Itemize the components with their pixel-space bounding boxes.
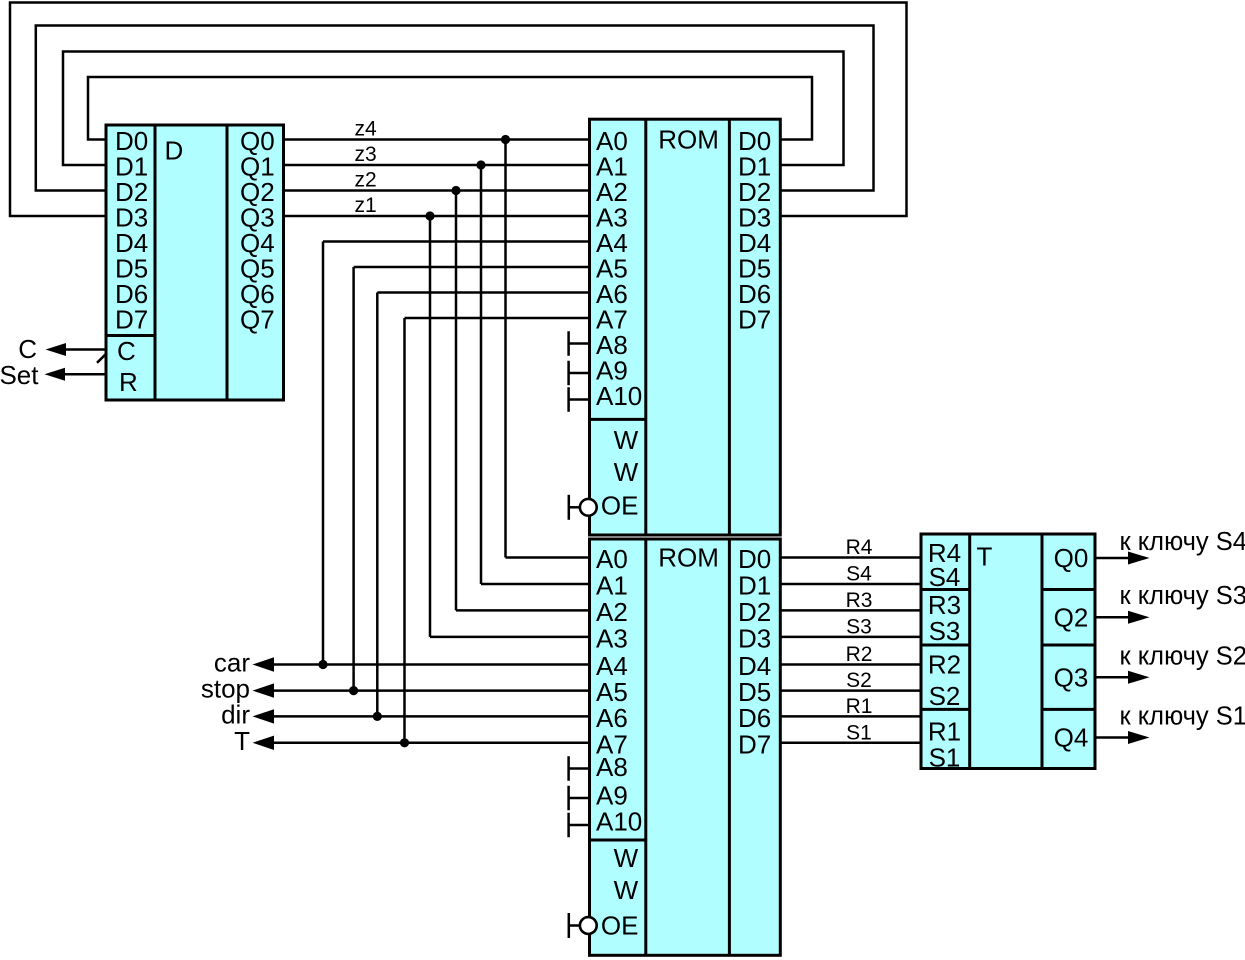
svg-text:S4: S4	[929, 562, 961, 592]
svg-text:A10: A10	[596, 381, 642, 411]
svg-text:A3: A3	[596, 623, 628, 653]
svg-text:C: C	[117, 336, 136, 366]
svg-text:к ключу S4: к ключу S4	[1120, 528, 1245, 556]
svg-text:W: W	[614, 875, 639, 905]
svg-text:D0: D0	[738, 544, 771, 574]
svg-text:ROM: ROM	[658, 543, 719, 573]
svg-text:R: R	[119, 367, 138, 397]
svg-text:D7: D7	[738, 729, 771, 759]
svg-text:Set: Set	[0, 360, 39, 390]
svg-text:D7: D7	[115, 305, 148, 335]
svg-text:Q2: Q2	[1054, 602, 1089, 632]
svg-text:ROM: ROM	[658, 125, 719, 155]
svg-text:T: T	[977, 542, 993, 572]
svg-text:W: W	[614, 843, 639, 873]
svg-text:к ключу S3: к ключу S3	[1120, 582, 1245, 610]
svg-text:W: W	[614, 457, 639, 487]
svg-text:T: T	[234, 726, 250, 756]
svg-text:z4: z4	[355, 118, 378, 141]
svg-text:к ключу S1: к ключу S1	[1120, 703, 1245, 731]
svg-text:Q4: Q4	[1054, 723, 1089, 753]
svg-text:S2: S2	[929, 681, 961, 711]
svg-text:A10: A10	[596, 807, 642, 837]
svg-text:OE: OE	[601, 491, 639, 521]
svg-text:D2: D2	[738, 597, 771, 627]
svg-text:A8: A8	[596, 752, 628, 782]
svg-text:R2: R2	[928, 650, 961, 680]
svg-text:Q3: Q3	[1054, 662, 1089, 692]
svg-text:R1: R1	[846, 695, 873, 718]
svg-text:D: D	[165, 136, 184, 166]
svg-text:A2: A2	[596, 597, 628, 627]
svg-text:S4: S4	[846, 563, 872, 586]
svg-text:S3: S3	[929, 616, 961, 646]
svg-text:S1: S1	[929, 743, 961, 773]
svg-text:z2: z2	[355, 169, 377, 192]
svg-text:D7: D7	[738, 305, 771, 335]
svg-text:OE: OE	[601, 911, 639, 941]
svg-text:S2: S2	[846, 669, 872, 692]
svg-text:z3: z3	[355, 143, 377, 166]
svg-text:Q7: Q7	[240, 305, 275, 335]
svg-text:к ключу S2: к ключу S2	[1120, 643, 1245, 671]
svg-text:R2: R2	[846, 643, 873, 666]
svg-text:D3: D3	[738, 623, 771, 653]
svg-text:z1: z1	[355, 194, 377, 217]
svg-text:R3: R3	[846, 589, 873, 612]
svg-text:Q0: Q0	[1054, 543, 1089, 573]
svg-text:S1: S1	[846, 721, 872, 744]
svg-text:A0: A0	[596, 544, 628, 574]
svg-text:R4: R4	[846, 536, 873, 559]
svg-text:S3: S3	[846, 615, 872, 638]
svg-text:W: W	[614, 425, 639, 455]
